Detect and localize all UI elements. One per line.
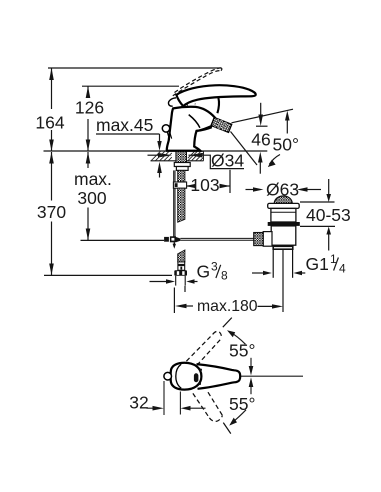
arrow 46 up bbox=[258, 152, 263, 163]
svg-text:103: 103 bbox=[190, 175, 219, 195]
upper body bbox=[271, 208, 296, 222]
faucet body bbox=[167, 107, 215, 151]
spout underside bbox=[197, 127, 212, 131]
extension line top (164 ref) bbox=[48, 67, 221, 69]
arrow 40-53 down bbox=[326, 194, 331, 202]
pop-up knob bbox=[162, 125, 169, 132]
counter hatch right bbox=[188, 151, 204, 161]
rod coupling bbox=[164, 237, 169, 242]
pop-up lever housing bbox=[263, 232, 272, 247]
supply hose middle bbox=[178, 188, 185, 222]
svg-text:46: 46 bbox=[251, 130, 270, 150]
svg-text:40-53: 40-53 bbox=[306, 205, 351, 225]
counter bottom line bbox=[151, 160, 204, 162]
arrow max180 left bbox=[175, 304, 187, 308]
arrow max45 up bbox=[157, 162, 162, 173]
arrow 46 down bbox=[258, 115, 263, 127]
body/spout junction line bbox=[189, 115, 200, 128]
svg-text:Ø34: Ø34 bbox=[211, 151, 244, 171]
svg-text:4: 4 bbox=[339, 262, 346, 276]
handle front hook curl bbox=[168, 98, 176, 106]
tail pipe G1 1/4 bbox=[272, 250, 274, 278]
svg-text:3: 3 bbox=[211, 260, 218, 274]
mid body bbox=[271, 226, 296, 245]
supply hose lower bbox=[178, 250, 185, 262]
arrow 50 arc tip bbox=[268, 160, 276, 167]
arrow 370 bottom bbox=[49, 264, 54, 276]
svg-text:164: 164 bbox=[35, 113, 64, 133]
threaded shank bbox=[176, 151, 187, 163]
dashed lever position upper bbox=[186, 331, 221, 365]
plug dome bbox=[274, 196, 292, 203]
arrow Ø34 right bbox=[189, 153, 203, 158]
axis line bbox=[240, 375, 304, 377]
hose end fitting bbox=[178, 262, 185, 270]
connection nut G3/8 bbox=[174, 270, 187, 276]
32 dimension arrows bbox=[147, 407, 153, 409]
svg-text:max.45: max.45 bbox=[96, 115, 153, 135]
dimension 40-53 reference lines bbox=[300, 201, 335, 203]
55 upper axis tick bbox=[223, 318, 232, 328]
dashed lever position lower bbox=[193, 392, 223, 421]
arrow max45 down bbox=[157, 141, 161, 151]
arrow 126 bottom bbox=[86, 140, 91, 152]
arrow 50 up bbox=[285, 111, 290, 121]
dimension 46 verticals bbox=[260, 103, 262, 116]
55 upper arc leader bbox=[230, 332, 246, 345]
dimension G3/8 bbox=[150, 281, 168, 283]
rod clip bbox=[173, 182, 186, 188]
lever blade top view bbox=[197, 364, 241, 389]
arrow 126 top bbox=[86, 86, 91, 98]
arrow max180 right bbox=[272, 304, 283, 308]
arrow 40-53 up bbox=[326, 227, 331, 235]
handle slot bbox=[194, 373, 199, 382]
supply hose upper bbox=[178, 170, 185, 182]
dimension Ø34 leader bbox=[148, 154, 159, 156]
dimension 370 vertical bbox=[51, 152, 53, 201]
stream line B bbox=[231, 132, 258, 166]
arrow 103 left bbox=[185, 184, 196, 188]
svg-text:55°: 55° bbox=[229, 341, 255, 361]
svg-text:370: 370 bbox=[37, 202, 66, 222]
arrow 164 bottom bbox=[49, 140, 54, 152]
extension line (126 ref) bbox=[82, 85, 179, 87]
arrow 370 top bbox=[49, 152, 54, 164]
55 lower axis tick bbox=[223, 423, 231, 434]
arrow 103 right bbox=[220, 184, 231, 188]
pop-up rod reference line left bbox=[81, 239, 165, 241]
arrow max300 bottom bbox=[86, 229, 91, 241]
55 lower arrow vertical bbox=[250, 386, 252, 395]
dimension max.300 vertical bbox=[87, 152, 89, 168]
arrow G38 left bbox=[166, 279, 175, 283]
dimension G1 1/4 bbox=[252, 272, 264, 274]
seal washer band bbox=[268, 222, 300, 226]
stream line A bbox=[232, 109, 294, 123]
handle raised dashed bbox=[173, 68, 221, 106]
horizontal rod to drain bbox=[180, 237, 253, 239]
max.45 shelf and drop bbox=[96, 133, 160, 135]
dimension 126 vertical bbox=[87, 86, 89, 98]
arrow 164 top bbox=[49, 68, 54, 80]
bottom ring bbox=[272, 245, 293, 250]
locknut bbox=[174, 163, 190, 167]
arrow max300 top bbox=[86, 152, 91, 164]
svg-text:8: 8 bbox=[221, 269, 228, 283]
svg-text:G1: G1 bbox=[306, 254, 329, 274]
flange Ø63 bbox=[268, 203, 300, 208]
55 upper arrow vertical bbox=[250, 358, 252, 368]
dimension 164 vertical bbox=[51, 68, 53, 109]
arrow G1.25 right bbox=[293, 271, 302, 275]
svg-text:G: G bbox=[197, 262, 211, 282]
aerator bbox=[211, 117, 232, 132]
svg-text:300: 300 bbox=[77, 188, 106, 208]
370 bottom reference line bbox=[44, 274, 172, 276]
arrow G1.25 left bbox=[263, 271, 272, 275]
inner front arc bbox=[176, 364, 181, 388]
50 degree arc leader bbox=[269, 155, 280, 165]
knob top view bbox=[164, 372, 172, 380]
svg-text:max.180: max.180 bbox=[197, 298, 258, 315]
pipe below nut bbox=[175, 276, 177, 286]
slash G3/8 bbox=[216, 265, 221, 278]
svg-text:32: 32 bbox=[129, 393, 148, 413]
arrow G38 right bbox=[186, 279, 194, 283]
counter top line bbox=[44, 150, 268, 152]
32 extension lines bbox=[163, 381, 165, 415]
dimension Ø63 bbox=[246, 189, 255, 191]
50 degree vertical arrow line bbox=[286, 118, 288, 134]
knurled cap bbox=[254, 233, 264, 246]
dimension 103 bbox=[185, 185, 190, 187]
arrow Ø63 left bbox=[253, 187, 264, 191]
rod stub below coupling bbox=[173, 242, 175, 247]
pop-up rod vertical bbox=[173, 170, 175, 236]
body top view bbox=[171, 363, 202, 390]
counter hatch left bbox=[151, 151, 172, 161]
arrow Ø63 right bbox=[297, 187, 308, 191]
handle lever solid bbox=[176, 85, 255, 106]
arrow Ø34 left bbox=[158, 153, 172, 158]
svg-text:max.: max. bbox=[74, 169, 112, 189]
dimension max.180 bbox=[173, 288, 175, 314]
neck rear curve bbox=[211, 87, 219, 113]
slash G1 1/4 bbox=[334, 258, 339, 271]
55 lower arc leader bbox=[232, 410, 247, 423]
svg-text:50°: 50° bbox=[273, 134, 299, 154]
detail dots bbox=[199, 369, 202, 372]
svg-text:55°: 55° bbox=[229, 394, 255, 414]
